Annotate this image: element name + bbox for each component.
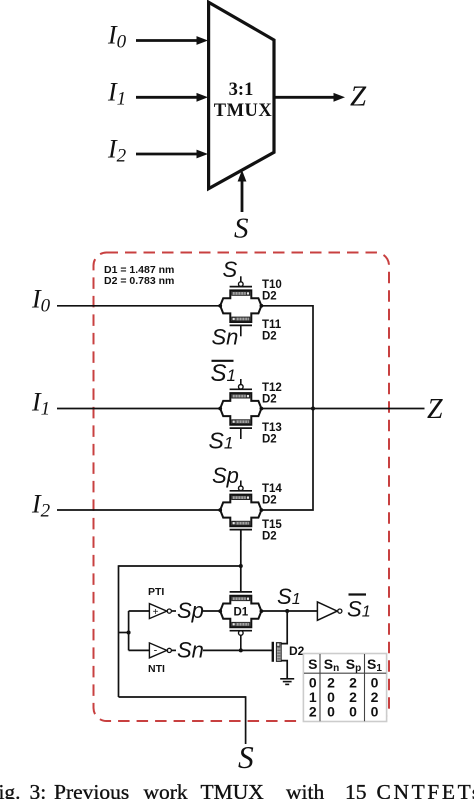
label S1 node: [277, 584, 301, 609]
output arrow Z: [274, 93, 345, 102]
svg-text:Fig.3:PreviousworkTMUXwith15CN: Fig.3:PreviousworkTMUXwith15CNTFETs: [0, 780, 474, 799]
input arrow I1: [136, 93, 208, 102]
inverter PTI: [149, 604, 171, 619]
svg-text:2: 2: [309, 704, 317, 720]
svg-text:Z: Z: [427, 394, 443, 425]
svg-text:I2: I2: [107, 135, 127, 167]
svg-text:PTI: PTI: [148, 586, 164, 598]
wire S feedback horizontal top: [119, 565, 241, 567]
input arrow I0: [136, 36, 208, 45]
label D2 (transistor): [289, 644, 305, 658]
svg-text:D2: D2: [262, 531, 277, 543]
svg-text:D2: D2: [262, 331, 277, 343]
svg-text:0: 0: [327, 704, 335, 720]
mux block U-TMUX trapezoid 3:1: [209, 2, 274, 189]
svg-text:TMUX: TMUX: [214, 101, 273, 121]
svg-text:T10: T10: [262, 279, 282, 291]
input arrow I2: [136, 150, 208, 159]
label T11: [262, 319, 282, 331]
svg-text:D2 = 0.783 nm: D2 = 0.783 nm: [104, 275, 174, 287]
wire to PTI input: [129, 610, 149, 612]
svg-text:S: S: [308, 656, 317, 672]
junction Z bus: [311, 407, 315, 411]
wire to NTI input: [129, 649, 149, 651]
svg-text:S: S: [223, 257, 238, 282]
svg-text:I0: I0: [31, 285, 51, 317]
select arrow S: [238, 170, 247, 212]
svg-text:-: -: [154, 645, 158, 657]
junction T15/D1/S feedback: [239, 564, 243, 568]
label T13: [262, 422, 282, 434]
svg-text:I1: I1: [31, 388, 50, 420]
svg-text:Sn: Sn: [177, 638, 204, 663]
svg-text:+: +: [153, 607, 159, 618]
svg-text:T11: T11: [262, 319, 282, 331]
annotation D1/D2 diameters: [104, 264, 174, 287]
svg-text:I0: I0: [107, 21, 127, 53]
svg-text:S: S: [238, 740, 254, 775]
label I1: [107, 78, 126, 110]
inverter NTI: [149, 643, 171, 658]
transmission gate D1: [218, 592, 263, 651]
transmission gate T14/T15: [218, 481, 263, 541]
svg-text:D2: D2: [262, 291, 277, 303]
svg-text:Z: Z: [350, 81, 367, 113]
label D2 (T14): [262, 495, 277, 507]
wire I2 input: [57, 509, 220, 511]
wire TG3 output to Z bus: [261, 409, 313, 511]
svg-text:S1: S1: [277, 584, 301, 609]
label D2 (T10): [262, 291, 277, 303]
net label S1-bar (inverter output): [347, 595, 371, 622]
svg-text:Sp: Sp: [177, 598, 204, 623]
branch junction to inverters: [119, 611, 131, 650]
svg-text:T13: T13: [262, 422, 282, 434]
wire TG1 output to Z bus: [261, 306, 313, 409]
net label Sp (T14 gate): [212, 463, 239, 488]
svg-text:3:1: 3:1: [229, 80, 254, 100]
label T12: [262, 382, 282, 394]
svg-text:Sn: Sn: [212, 325, 239, 350]
transmission gate T12/T13: [218, 379, 263, 439]
wire Z output: [261, 408, 424, 410]
wire S feedback left vertical: [118, 565, 120, 697]
wire Sp to D1: [203, 610, 220, 612]
label T15: [262, 519, 282, 531]
svg-text:I2: I2: [31, 490, 51, 522]
net label Sp (PTI output): [177, 598, 204, 623]
net label Sn (NTI output): [177, 638, 204, 663]
svg-text:NTI: NTI: [148, 663, 165, 675]
svg-text:T15: T15: [262, 519, 282, 531]
label I0: [107, 21, 127, 53]
label I2 (schematic): [31, 490, 51, 522]
svg-text:D2: D2: [262, 394, 277, 406]
svg-text:I1: I1: [107, 78, 126, 110]
wire NTI output: [171, 649, 176, 651]
junction D1 bottom gate on Sn wire: [239, 648, 243, 652]
svg-text:S: S: [234, 213, 249, 245]
net label S (T10 gate): [223, 257, 238, 282]
label D2 (T15): [262, 531, 277, 543]
label I0 (schematic): [31, 285, 51, 317]
label T14: [262, 483, 282, 495]
label S (top): [234, 213, 249, 245]
wire PTI output: [171, 610, 176, 612]
net label S1-bar (T12 gate): [211, 360, 236, 387]
wire S input stub: [245, 696, 247, 744]
wire S1 node: [261, 610, 317, 612]
label NTI: [148, 663, 165, 675]
svg-text:D2: D2: [289, 644, 305, 658]
svg-text:S1: S1: [211, 360, 236, 387]
label I2: [107, 135, 127, 167]
label Z (top): [350, 81, 367, 113]
label D2 (T13): [262, 434, 277, 446]
label Z (schematic): [427, 394, 443, 425]
label PTI: [148, 586, 164, 598]
svg-text:S1: S1: [209, 428, 234, 454]
svg-text:0: 0: [371, 704, 379, 720]
wire I0 input: [57, 305, 220, 307]
net label Sn (T11 gate): [212, 325, 239, 350]
truth table S/Sn/Sp/S1: [303, 654, 386, 722]
label D2 (T11): [262, 331, 277, 343]
svg-text:Sp: Sp: [212, 463, 239, 488]
label D2 (T12): [262, 394, 277, 406]
svg-text:D1: D1: [233, 606, 248, 618]
caption Fig. 3: [0, 780, 474, 804]
label T10: [262, 279, 282, 291]
wire I1 input: [57, 408, 220, 410]
dashed red boundary box: [94, 253, 390, 722]
svg-text:0: 0: [349, 704, 357, 720]
svg-text:T12: T12: [262, 382, 282, 394]
svg-text:S1: S1: [347, 597, 371, 622]
junction S1/D2 drain: [285, 609, 289, 613]
svg-text:D2: D2: [262, 434, 277, 446]
label S (bottom): [238, 740, 254, 775]
wire Sn to D2 gate: [203, 649, 272, 651]
net label S1 (T13 gate): [209, 428, 234, 454]
transistor D2 (NMOS): [273, 611, 287, 679]
wire T15 gate down to D1 gate: [240, 530, 242, 592]
wire S feedback bottom: [119, 696, 246, 698]
svg-text:T14: T14: [262, 483, 282, 495]
label I1 (schematic): [31, 388, 50, 420]
svg-text:D2: D2: [262, 495, 277, 507]
inverter U1 output S1-bar: [317, 602, 342, 620]
transmission gate T10/T11: [218, 276, 263, 336]
ground: [280, 679, 294, 685]
